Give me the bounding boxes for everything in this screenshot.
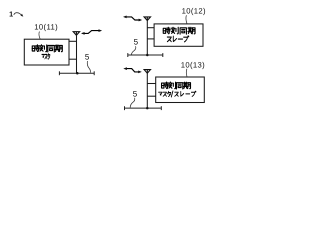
antenna A <box>73 32 79 36</box>
svg-text:5: 5 <box>85 52 90 61</box>
subtitle マスタ <box>42 54 50 60</box>
bus segment 5 (left) <box>59 71 94 75</box>
leader 10(13) <box>185 69 188 77</box>
svg-text:5: 5 <box>134 38 139 47</box>
subtitle マスタ/スレーブ <box>159 91 196 97</box>
bus segment 5 (bottom right) <box>125 106 162 110</box>
title 時刻同期 (master/slave) <box>162 82 191 89</box>
wire stub C1 <box>147 83 155 85</box>
wire stub A1 <box>69 40 77 42</box>
wire stub C2 <box>147 95 155 97</box>
svg-text:10(12): 10(12) <box>182 7 206 16</box>
wire stub B1 <box>147 27 154 29</box>
junction dot B <box>146 54 149 57</box>
bus segment 5 (top right) <box>128 53 163 57</box>
wire stub B2 <box>147 38 154 40</box>
svg-text:10(13): 10(13) <box>181 60 205 69</box>
antenna C <box>144 70 150 74</box>
svg-text:5: 5 <box>133 89 138 98</box>
wireless link arrow B <box>125 17 141 20</box>
wire antenna B drop line <box>146 20 148 55</box>
wire stub A2 <box>69 58 77 60</box>
leader 10(11) <box>39 32 40 40</box>
wireless link arrow C <box>125 69 140 72</box>
wire antenna A drop line <box>76 35 78 73</box>
junction dot A <box>76 72 79 75</box>
title 時刻同期 (slave) <box>163 27 195 34</box>
box master/slave unit 10(13) <box>156 77 205 103</box>
junction dot C <box>146 107 149 110</box>
wire antenna C drop line <box>146 73 148 108</box>
leader 10(12) <box>186 15 187 24</box>
leader 5 (top right) <box>131 46 135 54</box>
subtitle スレーブ <box>167 36 189 42</box>
box master unit 10(11) <box>24 39 69 65</box>
box slave unit 10(12) <box>154 24 203 46</box>
title 時刻同期 (master) <box>32 45 62 52</box>
leader 5 (bottom right) <box>130 98 135 108</box>
svg-text:1: 1 <box>9 10 13 19</box>
wireless link arrow A <box>82 31 100 34</box>
antenna B <box>144 17 150 21</box>
leader 5 (left) <box>87 61 90 73</box>
leader squiggle for label 1 <box>14 13 22 15</box>
svg-text:10(11): 10(11) <box>34 22 58 31</box>
